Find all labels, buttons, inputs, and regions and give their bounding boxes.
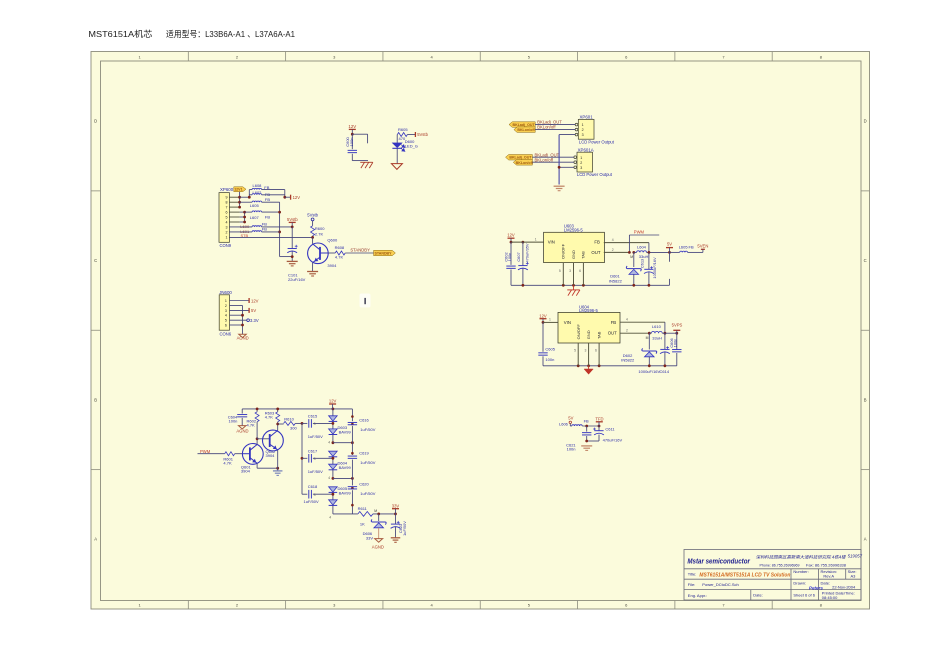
power port 5V (JN600) — [230, 308, 257, 313]
net label BKLon/off — [537, 125, 556, 130]
svg-text:B: B — [94, 397, 97, 402]
svg-text:C614: C614 — [660, 369, 670, 374]
junction — [351, 477, 354, 480]
FB pin wire (U604) — [620, 318, 665, 323]
capacitor C101 — [287, 245, 297, 261]
svg-text:C613: C613 — [640, 259, 645, 268]
power port 12V (JN600) — [230, 298, 259, 303]
svg-text:3: 3 — [314, 457, 316, 461]
svg-text:2: 2 — [626, 329, 628, 333]
svg-text:Fax: 86.755.26996338: Fax: 86.755.26996338 — [806, 563, 846, 567]
resistor R611 — [358, 506, 373, 527]
power port 5Vstb — [407, 132, 428, 137]
wire (tie1) — [333, 442, 353, 444]
power port 5VEN — [697, 244, 708, 253]
ground (solid) — [584, 366, 593, 374]
svg-text:519057: 519057 — [848, 554, 863, 559]
svg-text:100n: 100n — [567, 447, 576, 452]
wire (bus p6-p4) — [240, 212, 245, 222]
svg-text:5V: 5V — [568, 416, 573, 421]
junction — [648, 332, 678, 335]
wire — [291, 227, 293, 248]
svg-text:C617: C617 — [308, 448, 318, 453]
svg-text:4: 4 — [226, 221, 228, 225]
capacitor C607 — [516, 242, 530, 285]
ground AGND (C604) — [236, 426, 248, 434]
svg-text:100n: 100n — [349, 138, 354, 147]
svg-text:Title:: Title: — [688, 571, 697, 576]
wire — [532, 161, 574, 163]
svg-text:FB: FB — [584, 418, 589, 423]
zener D606 — [363, 514, 387, 540]
pin marks — [328, 440, 331, 519]
capacitor C611 — [593, 426, 622, 443]
power port 12V (C600) — [348, 124, 356, 134]
svg-text:4: 4 — [329, 516, 331, 520]
svg-text:C615: C615 — [308, 413, 318, 418]
junction — [276, 423, 279, 426]
capacitor C623 — [391, 514, 407, 538]
wire (left cap column) — [301, 423, 303, 494]
title block — [684, 550, 863, 601]
svg-text:4.7K: 4.7K — [247, 422, 256, 427]
pin mark M — [646, 336, 649, 340]
FB pin wire — [604, 238, 649, 243]
svg-text:L605: L605 — [679, 245, 689, 250]
connector XP600 — [219, 187, 240, 248]
svg-text:FB: FB — [689, 244, 694, 249]
junction — [276, 467, 279, 470]
svg-text:470uF/16V: 470uF/16V — [603, 438, 623, 443]
svg-text:3: 3 — [585, 349, 587, 353]
ground (bars) — [307, 272, 318, 277]
inductor L604 — [634, 244, 649, 259]
resistor R605 — [397, 127, 408, 141]
svg-text:B: B — [864, 397, 867, 402]
power port 5Vstb (C101) — [287, 217, 298, 227]
capacitor C600 — [345, 134, 357, 160]
connector XP601A — [574, 147, 613, 177]
inductor L606 — [559, 418, 589, 426]
wire (GND net) — [558, 135, 560, 185]
svg-text:5V: 5V — [667, 242, 672, 247]
svg-text:Number:: Number: — [793, 569, 808, 574]
svg-text:3: 3 — [225, 309, 227, 313]
svg-text:5: 5 — [559, 269, 561, 273]
junction — [351, 441, 354, 444]
svg-text:R610: R610 — [284, 416, 294, 421]
wire — [277, 424, 279, 468]
svg-text:1uF/50V: 1uF/50V — [360, 491, 375, 496]
svg-text:300: 300 — [290, 426, 297, 431]
svg-text:M: M — [646, 336, 649, 340]
wire — [280, 256, 293, 258]
svg-text:1: 1 — [535, 237, 537, 241]
port BKLadj_OUT — [509, 122, 535, 128]
svg-text:3904: 3904 — [266, 453, 276, 458]
wire (U604 bottom rail) — [543, 365, 677, 367]
svg-text:FB: FB — [264, 185, 269, 190]
wire — [559, 134, 575, 136]
wire (12V rail) — [242, 408, 352, 410]
svg-text:1uF/50V: 1uF/50V — [308, 469, 323, 474]
svg-text:100n: 100n — [673, 339, 678, 348]
svg-text:Drawn:: Drawn: — [793, 580, 806, 585]
svg-text:08:45:00: 08:45:00 — [822, 595, 838, 600]
svg-text:3.3V: 3.3V — [250, 318, 259, 323]
resistor R608 — [328, 245, 345, 259]
svg-text:GND: GND — [586, 330, 591, 339]
wire (PWM) — [629, 235, 659, 252]
wire — [262, 231, 280, 233]
page title text — [88, 28, 295, 39]
junction — [311, 236, 314, 239]
svg-text:4: 4 — [626, 318, 628, 322]
svg-text:1: 1 — [580, 156, 582, 160]
svg-text:L607: L607 — [250, 215, 260, 220]
diode D602 (IN5822) — [621, 333, 656, 366]
svg-text:33V: 33V — [366, 535, 373, 540]
net label BKLadj_OUT — [537, 120, 562, 125]
pin mark M — [630, 255, 633, 259]
connector JN600 — [219, 290, 232, 337]
ground AGND (D606) — [372, 539, 384, 550]
junction — [648, 251, 671, 254]
junction — [278, 211, 281, 234]
svg-text:2: 2 — [582, 128, 584, 132]
junction — [628, 251, 635, 254]
wire — [664, 322, 666, 333]
ground (bars) — [391, 538, 401, 543]
inductor L602 — [249, 190, 270, 197]
junction — [291, 226, 294, 229]
svg-text:ON/OFF: ON/OFF — [561, 243, 566, 259]
net label PWM (U603) — [634, 229, 645, 234]
wire — [230, 314, 243, 316]
ground (bars) — [287, 261, 298, 266]
svg-text:M: M — [374, 509, 377, 513]
svg-text:3904: 3904 — [241, 468, 251, 473]
svg-text:100n: 100n — [229, 419, 238, 424]
svg-text:1: 1 — [225, 299, 227, 303]
junction — [522, 284, 651, 287]
net label STANDBY — [350, 248, 370, 253]
svg-text:LED_G: LED_G — [405, 144, 418, 149]
wire — [262, 190, 285, 198]
svg-text:XP601A: XP601A — [578, 147, 594, 152]
svg-text:CON9: CON9 — [220, 243, 232, 248]
pin 1 wire — [511, 237, 544, 242]
wire — [352, 134, 367, 143]
svg-text:Sheet 6 of 6: Sheet 6 of 6 — [793, 592, 815, 597]
svg-text:5Vstb: 5Vstb — [307, 212, 318, 217]
svg-text:A3: A3 — [851, 574, 857, 579]
wire — [535, 124, 575, 126]
OUT pin wire — [604, 248, 630, 252]
svg-text:1uF/50V: 1uF/50V — [304, 499, 319, 504]
svg-text:Q600: Q600 — [327, 238, 338, 243]
svg-text:1: 1 — [549, 318, 551, 322]
svg-text:Power_DCtoDC.Sch: Power_DCtoDC.Sch — [702, 582, 738, 587]
wire (STB rail) — [229, 236, 312, 238]
wire — [262, 194, 285, 196]
svg-text:6: 6 — [579, 269, 581, 273]
svg-text:OUT: OUT — [608, 331, 617, 336]
junction (right column pins) — [351, 415, 354, 506]
junction — [291, 255, 294, 258]
pin 1 wire (U604) — [543, 318, 558, 323]
junction — [283, 196, 286, 199]
svg-text:M: M — [630, 255, 633, 259]
svg-text:12V: 12V — [251, 298, 259, 303]
svg-text:1uF/50V: 1uF/50V — [308, 434, 323, 439]
wire — [582, 425, 599, 427]
inductor L610 — [649, 324, 677, 341]
wire (U603 bottom rail) — [511, 284, 670, 286]
svg-text:2: 2 — [226, 230, 228, 234]
label D604 — [338, 460, 352, 470]
svg-text:5V: 5V — [251, 308, 256, 313]
junction — [238, 196, 241, 209]
svg-text:1000uF/16V: 1000uF/16V — [652, 257, 657, 279]
inductor L608 — [249, 183, 269, 190]
svg-text:FB: FB — [265, 214, 270, 219]
junction — [510, 241, 525, 244]
wire — [559, 166, 574, 168]
svg-text:3: 3 — [314, 422, 316, 426]
inductor L607 — [245, 211, 271, 220]
svg-text:BAV99: BAV99 — [339, 491, 352, 496]
ground (chassis) — [360, 162, 373, 168]
svg-text:C620: C620 — [359, 482, 369, 487]
svg-text:5: 5 — [225, 319, 227, 323]
svg-text:TAB: TAB — [581, 251, 586, 259]
capacitor C606 — [669, 333, 682, 366]
port STANDBY — [374, 250, 396, 255]
svg-text:L605: L605 — [250, 203, 260, 208]
wire — [587, 440, 599, 442]
svg-text:C616: C616 — [359, 417, 369, 422]
svg-text:AGND: AGND — [372, 545, 384, 550]
svg-text:FB: FB — [262, 227, 267, 232]
inductor L605 — [240, 197, 271, 208]
svg-text:C: C — [94, 258, 97, 263]
svg-text:6: 6 — [225, 324, 227, 328]
junction — [241, 314, 244, 317]
junction — [256, 437, 259, 440]
label C614 — [638, 369, 669, 374]
wire (right cap column) — [351, 409, 353, 514]
svg-text:5VPS: 5VPS — [672, 322, 683, 327]
ground AGND (JN600) — [237, 334, 249, 340]
svg-text:4.7K: 4.7K — [335, 254, 344, 259]
svg-text:4: 4 — [612, 238, 614, 242]
op-amp U604 (LM2596-5) — [558, 304, 620, 343]
svg-text:22-Nov-2004: 22-Nov-2004 — [832, 584, 856, 589]
diode D601 (IN5822) — [609, 252, 641, 285]
svg-text:33V: 33V — [392, 504, 400, 509]
capacitor C621 — [566, 426, 591, 452]
svg-text:LM2596-5: LM2596-5 — [564, 228, 584, 233]
label C101 — [288, 272, 306, 282]
svg-text:BKLon/off: BKLon/off — [537, 125, 556, 130]
capacitor C604 — [228, 409, 248, 426]
capacitor C605 — [538, 322, 555, 365]
power port TFD — [595, 416, 603, 426]
svg-text:ON/OFF: ON/OFF — [576, 324, 581, 340]
wire — [262, 226, 293, 228]
pin mark M — [374, 509, 377, 513]
svg-text:2: 2 — [580, 161, 582, 165]
junction — [577, 364, 667, 367]
net label BKLadj_OUT (A) — [535, 152, 560, 157]
svg-text:D: D — [864, 119, 867, 124]
svg-text:GND: GND — [571, 250, 576, 259]
power port 33V — [392, 504, 400, 514]
wire — [312, 263, 314, 272]
svg-text:R605: R605 — [398, 127, 408, 132]
diode string D603/D604/D605 (BAV99) — [329, 409, 338, 514]
svg-text:2.7K: 2.7K — [315, 231, 324, 236]
svg-text:12V: 12V — [507, 233, 515, 238]
port BKLadj_OUT (A) — [506, 155, 533, 161]
svg-text:L602: L602 — [253, 190, 263, 195]
svg-text:BKLadj_OUT: BKLadj_OUT — [509, 156, 532, 160]
ground (bars) — [554, 186, 565, 191]
transistor Q602 — [263, 430, 284, 458]
connector XP601 — [575, 115, 615, 145]
wire — [257, 463, 278, 468]
capacitor C616 — [348, 417, 376, 432]
ground (triangle) — [391, 164, 402, 170]
svg-text:1uF/50V: 1uF/50V — [360, 460, 375, 465]
svg-text:470uF/35V: 470uF/35V — [525, 243, 530, 262]
wire — [352, 160, 368, 162]
junction — [301, 422, 304, 425]
svg-text:R608: R608 — [335, 245, 345, 250]
wire — [230, 306, 243, 335]
junction — [585, 440, 588, 443]
power port 12V (XP600) — [285, 195, 300, 200]
svg-text:C605: C605 — [545, 347, 555, 352]
junction — [351, 133, 354, 136]
svg-text:STANDBY: STANDBY — [350, 248, 370, 253]
svg-text:CON6: CON6 — [220, 332, 232, 337]
OUT pin wire (U604) — [620, 329, 649, 334]
svg-text:Eng. Appr.:: Eng. Appr.: — [688, 593, 708, 598]
power port 12V (pump) — [329, 398, 337, 409]
junction — [243, 211, 246, 224]
inductor L600 — [229, 222, 267, 230]
svg-text:3: 3 — [314, 493, 316, 497]
wire — [312, 237, 314, 244]
junction — [256, 408, 335, 411]
svg-text:BKLadj_OUT: BKLadj_OUT — [513, 123, 536, 127]
svg-text:4: 4 — [328, 476, 330, 480]
wire — [240, 190, 250, 198]
IC bottom pins (U604) — [574, 343, 599, 366]
svg-text:FB: FB — [265, 197, 270, 202]
svg-text:C618: C618 — [308, 484, 318, 489]
power port 12V (U603) — [507, 233, 515, 242]
wire — [230, 324, 243, 326]
capacitor C617 — [302, 448, 333, 474]
port 12V1 — [234, 187, 246, 192]
capacitor C602 — [504, 242, 516, 285]
svg-text:2: 2 — [225, 304, 227, 308]
svg-text:File:: File: — [688, 582, 696, 587]
svg-text:5: 5 — [574, 349, 576, 353]
power port 5VPS — [672, 322, 683, 333]
svg-text:BAV99: BAV99 — [339, 465, 352, 470]
svg-text:3: 3 — [569, 269, 571, 273]
wire — [396, 135, 398, 143]
svg-text:1: 1 — [226, 235, 228, 239]
net id 3.3V — [230, 318, 259, 323]
svg-text:STANDBY: STANDBY — [374, 251, 392, 255]
LED D600 — [392, 139, 418, 151]
wire — [262, 211, 280, 213]
port BKLon/off — [514, 127, 536, 132]
svg-text:7: 7 — [226, 206, 228, 210]
wire — [396, 148, 398, 163]
svg-text:3: 3 — [226, 225, 228, 229]
op-amp U603 (LM2596-5) — [544, 223, 605, 262]
svg-text:LCD Power Output: LCD Power Output — [577, 172, 613, 177]
svg-text:适用型号：L33B6A-A1 、L37A6A-A1: 适用型号：L33B6A-A1 、L37A6A-A1 — [166, 29, 295, 39]
svg-text:XP601: XP601 — [580, 115, 594, 120]
svg-text:3: 3 — [582, 133, 584, 137]
svg-text:4.7K: 4.7K — [223, 460, 232, 465]
svg-text:BKLon/off: BKLon/off — [517, 128, 535, 132]
junction — [558, 166, 561, 169]
svg-text:4.7K: 4.7K — [265, 415, 274, 420]
svg-text:C607: C607 — [516, 252, 521, 261]
svg-text:Rev.A: Rev.A — [823, 574, 834, 579]
junction — [301, 457, 304, 460]
inductor L601 — [229, 227, 267, 235]
port BKLon/off (A) — [513, 160, 534, 166]
svg-text:IN5822: IN5822 — [609, 278, 623, 283]
svg-text:BKLon/off: BKLon/off — [516, 161, 534, 165]
resistor R603 — [265, 409, 280, 424]
wire (vertical) — [279, 202, 281, 256]
wire (pump bottom rail) — [333, 513, 358, 515]
svg-text:LCD Power Output: LCD Power Output — [579, 139, 615, 144]
svg-text:Date:: Date: — [753, 592, 763, 597]
wire — [532, 156, 574, 158]
svg-text:PWM: PWM — [634, 229, 645, 234]
svg-text:5Vstb: 5Vstb — [417, 132, 428, 137]
svg-text:OUT: OUT — [591, 250, 600, 255]
svg-text:MST6151A机芯: MST6151A机芯 — [88, 28, 152, 39]
IC bottom pins — [559, 263, 583, 286]
ground (chassis, U603) — [567, 285, 580, 295]
svg-text:A: A — [94, 537, 97, 542]
capacitor C615 — [302, 413, 333, 439]
svg-text:FB: FB — [594, 240, 600, 245]
svg-text:33uH: 33uH — [639, 254, 649, 259]
net label STB — [241, 233, 249, 238]
svg-text:Mstar semiconductor: Mstar semiconductor — [687, 557, 751, 566]
label D605 — [338, 486, 352, 496]
svg-text:TAB: TAB — [597, 331, 602, 339]
svg-text:12V1: 12V1 — [234, 188, 242, 192]
wire — [647, 251, 670, 253]
net id 5V (L606) — [568, 416, 573, 424]
transistor Q600 — [308, 238, 338, 268]
svg-text:4: 4 — [225, 314, 227, 318]
